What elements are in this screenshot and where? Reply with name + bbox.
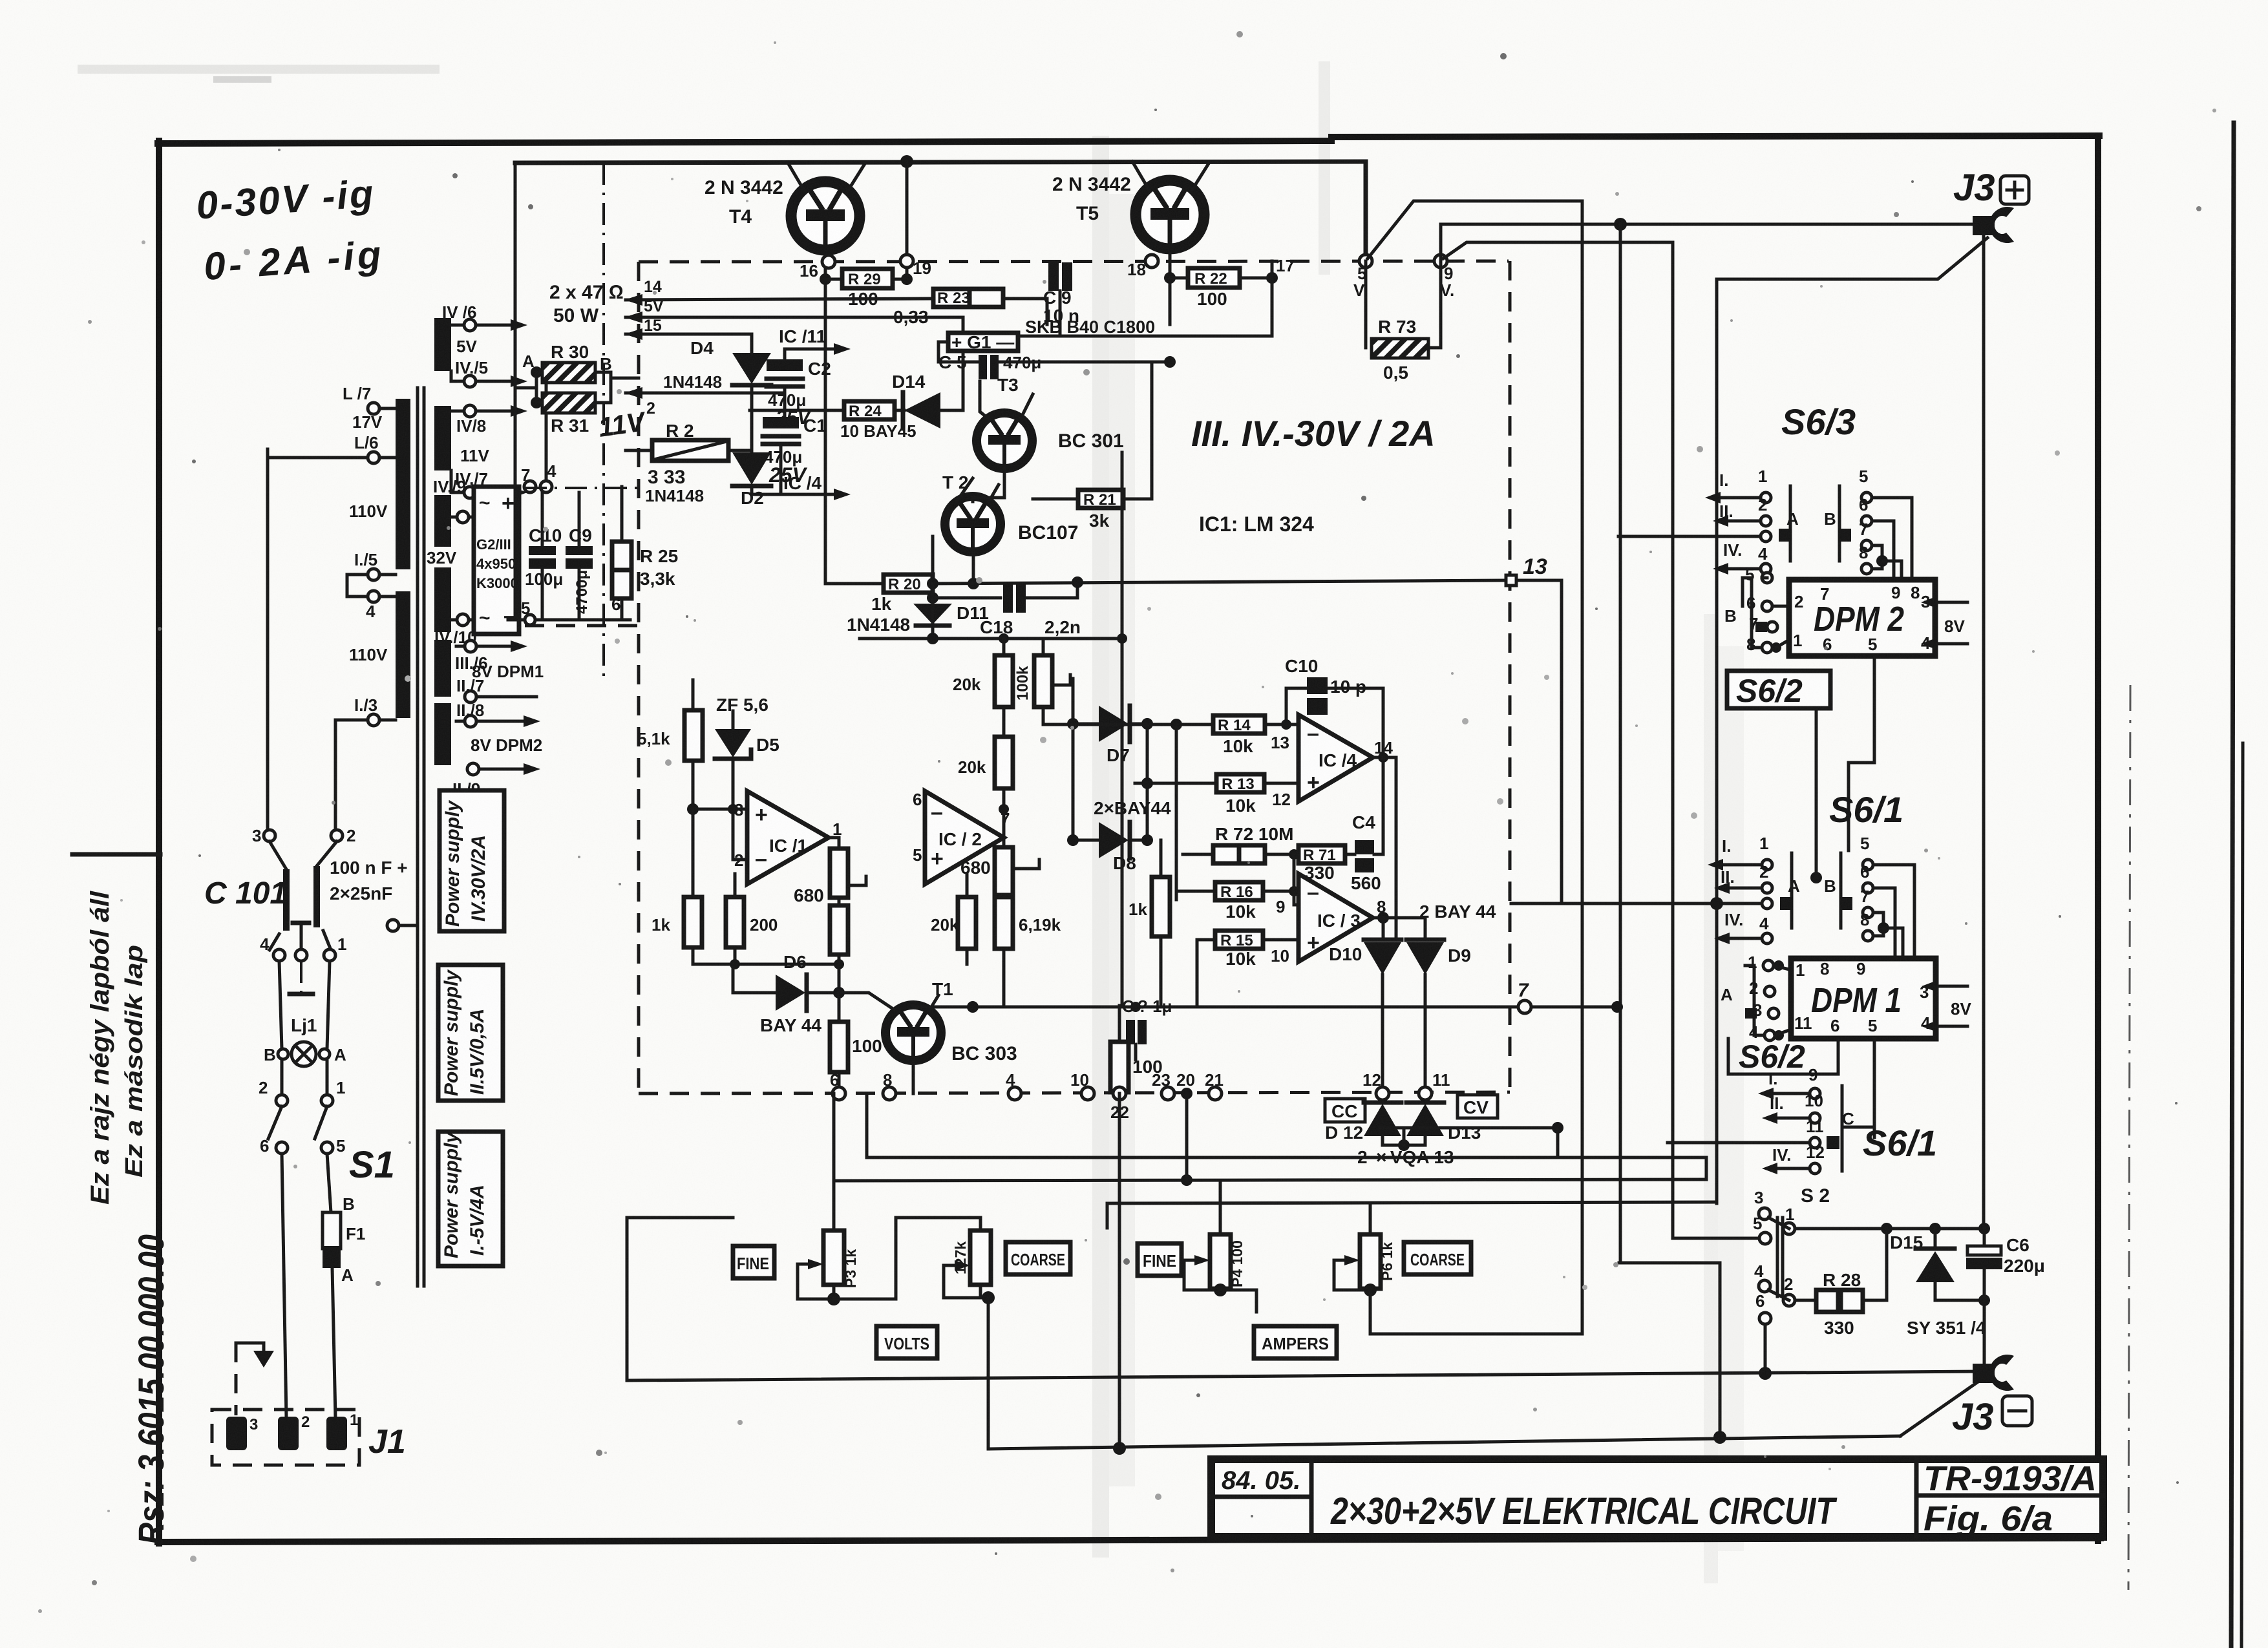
vertical from node9 wire down to S2 (1671, 242, 1675, 1238)
resistor R22 (1164, 272, 1176, 284)
diode D13 (1406, 1104, 1444, 1136)
resistor R21 (1078, 490, 1123, 508)
transistor T3 (977, 413, 1032, 469)
wire C9 bottom to R22 joint (1018, 335, 1272, 338)
P5 100k pot (1034, 655, 1052, 707)
resistor R12 (995, 897, 1013, 949)
wire IC/11 (785, 348, 834, 351)
wire rail to node19 (906, 162, 909, 279)
vertical from rail A down (1581, 201, 1584, 1333)
vertical sense line (1619, 224, 1622, 1263)
node 9 (1434, 255, 1447, 268)
wire S2-1 to C6 (1795, 1227, 1984, 1231)
diode D14 (904, 392, 940, 428)
diode D2 (732, 452, 771, 485)
FINE box (733, 1246, 774, 1278)
wire DPM2 pin5 down (1873, 656, 1876, 763)
rail A (627, 1371, 1982, 1380)
resistor R20 (884, 575, 933, 593)
resistor R71 330 (1298, 845, 1345, 863)
wire node9 diagonal (1443, 242, 1673, 259)
wire (282, 1154, 286, 1418)
resistor R14 (1213, 715, 1265, 734)
capacitor C10 (529, 546, 556, 555)
wire P3 riser (832, 1093, 836, 1231)
DPM2 box (1789, 580, 1935, 656)
wire 2 rail (626, 392, 785, 395)
page edge lines right (2231, 123, 2234, 1648)
long rails under module (867, 1156, 1705, 1159)
inner enclosure box (627, 1216, 733, 1220)
capacitor C101 (283, 869, 290, 931)
wires into IC/1 (693, 808, 747, 811)
node 2 (331, 830, 343, 841)
wire from lower contact 11 to left (1668, 1141, 1810, 1145)
capacitor C18 (933, 597, 1001, 600)
diode bottom rail (1381, 1136, 1384, 1145)
resistor R4 (684, 897, 702, 947)
secondary winding bar IV6/IV5 (434, 318, 451, 371)
capacitor C2 (767, 359, 803, 371)
wire (317, 841, 337, 866)
resistor R15 (1215, 931, 1263, 949)
transistor T4 (791, 182, 860, 250)
connector J1 dashed box (212, 1410, 359, 1465)
T4 emitter wire (824, 255, 827, 584)
J1 pin 1 (326, 1417, 347, 1450)
node 3 (264, 830, 275, 841)
resistor R13 (1216, 774, 1264, 792)
node 16 (822, 255, 835, 268)
wire I./3 to switch pole 2 (335, 719, 368, 722)
wire (266, 449, 270, 834)
resistor R3 (684, 710, 703, 761)
diode D8 (1099, 822, 1129, 858)
COARSE box 2 (1404, 1242, 1471, 1274)
resistor R29 (820, 273, 831, 285)
bridge top terminals 7 4 (524, 481, 536, 492)
left margin tick (72, 852, 160, 857)
handwritten note 0-30V-ig (195, 171, 386, 288)
bridge bottom rail (508, 618, 630, 622)
capacitor C6 (1983, 1229, 1986, 1250)
S6/2 label box (1727, 671, 1830, 708)
smoothing caps C10 C9 (541, 492, 544, 546)
resistor R10 (830, 905, 848, 955)
rail B (988, 1436, 1900, 1449)
terminal IV./10 (457, 614, 469, 626)
wire (279, 961, 282, 1049)
node 17 (1266, 272, 1278, 284)
VOLTS box (876, 1326, 937, 1358)
node 13 (1506, 575, 1516, 586)
node 5 (1359, 255, 1372, 268)
resistor R16 (1215, 882, 1263, 900)
wire C6 down to J3- (1983, 1300, 1986, 1371)
rail y=903 with R20 (node 13 rail) (825, 582, 884, 586)
pot P3 1k (823, 1231, 844, 1285)
node mid (295, 949, 307, 961)
wire from bridge + up to R30/R31 B node (545, 378, 548, 481)
primary winding bar (396, 591, 410, 718)
wire V- sense vertical (1121, 452, 1124, 1006)
resistor R18 (1110, 1042, 1129, 1092)
diode D6 BAY44 (732, 964, 735, 993)
resistor R8 (995, 655, 1013, 707)
op-amp IC/4 (1298, 715, 1373, 801)
transformer core (416, 388, 419, 1286)
COARSE box (1006, 1242, 1070, 1274)
outer frame border (158, 141, 1331, 143)
node dot on rail (900, 155, 913, 168)
pot P4 100 (1210, 1234, 1231, 1289)
wire bundle joiners bottom (1705, 1157, 1708, 1179)
module dashed top edge (639, 261, 1509, 262)
wire 13 to right (1516, 580, 1562, 702)
wire G1 bottom to T5 emitter (938, 342, 979, 362)
pot P6 (1360, 1234, 1381, 1289)
wire (327, 1154, 331, 1212)
wire (332, 1268, 335, 1418)
bottom dashed pin labels (832, 1087, 845, 1100)
inner box left vertical (514, 163, 517, 619)
op-amp IC/2 (925, 791, 1004, 884)
CC box (1325, 1099, 1365, 1122)
wire corner down to node5 (1364, 162, 1368, 260)
S6/2 big label (1728, 1039, 1838, 1074)
node 18 (1145, 255, 1158, 268)
resistor R17 (1152, 877, 1170, 936)
capacitor C9 (10n) (1048, 262, 1059, 291)
rectifier G1 (948, 333, 1018, 351)
extra bundle verticals (1560, 702, 1563, 903)
DPM1 box (1791, 958, 1936, 1039)
op-amp IC/3 (1298, 874, 1373, 962)
transistor T5 (1136, 180, 1204, 249)
fuse F1 (323, 1212, 341, 1249)
diagonal to J3- fork (1900, 1381, 1979, 1436)
J3+ feed rail (1441, 224, 1980, 261)
resistor R7 (995, 737, 1013, 788)
node 4 (273, 949, 285, 961)
rotated handwritten note left: Ez a rajz negy lapbol all (86, 891, 148, 1205)
wire from IC1 top rail to R14 (1073, 723, 1176, 726)
resistor R11 (830, 1022, 848, 1072)
diode D12 (1364, 1104, 1401, 1136)
J1 pin 3 (226, 1417, 247, 1450)
wire loop to P7 (834, 1218, 980, 1299)
rotated Rsz number (131, 1234, 171, 1545)
node 1 (324, 949, 335, 961)
wire lower-left of S2 (1619, 1263, 1720, 1437)
resistor R24 (844, 401, 895, 419)
pot P7 127k (970, 1231, 991, 1285)
FINE box 2 (1138, 1243, 1182, 1276)
diode D11 (927, 578, 938, 589)
capacitor C9 (566, 546, 593, 555)
primary winding bar (396, 399, 410, 569)
collector rail (515, 162, 1366, 163)
paper grain (0, 0, 1, 1)
module dashed right edge (1509, 261, 1512, 1092)
connector fork J3- (1973, 1364, 1995, 1383)
wire R23 right down to G1 (1003, 299, 1047, 324)
capacitor C1 (763, 417, 799, 428)
wire P7 node down to rail B (987, 1298, 990, 1449)
wire (334, 722, 337, 835)
module dashed bottom edge (639, 1092, 1510, 1093)
ground arrow top of J1 (236, 1342, 264, 1345)
module dashed left edge (637, 262, 641, 1093)
scan smudge streaks (1092, 136, 1109, 1558)
T4 collector/base wires (788, 163, 805, 193)
resistor R9 (958, 897, 976, 949)
wire (270, 841, 286, 869)
J1 pin 2 (278, 1417, 299, 1450)
wire from fork diagonal down to S6 box (1717, 238, 1987, 279)
wire 5V rail to G1 (626, 316, 963, 319)
CV box (1457, 1095, 1498, 1118)
secondary winding bar 32V (434, 495, 451, 547)
connector fork J3+ (1973, 216, 1995, 235)
node7 rail (913, 1006, 1617, 1009)
wire node5 diagonal to top rail A (1368, 201, 1582, 259)
wire (270, 934, 279, 950)
wire riser node22 (1118, 1093, 1121, 1448)
wire J3 vertical (1982, 235, 1986, 1229)
resistor R25 (612, 542, 631, 570)
bottom wire of IC1 stage (693, 963, 839, 966)
resistor R5 (726, 897, 744, 947)
capacitor C10 10p (1307, 677, 1328, 694)
dash-dot boundary (602, 163, 605, 680)
wire top of cluster (692, 680, 695, 710)
diode D9 (1406, 938, 1444, 942)
wire T3 emitter to base T2 (973, 498, 1004, 502)
rail under D11 (860, 637, 1122, 640)
Lj1 ground symbol (300, 961, 302, 992)
AMPERS box (1254, 1326, 1337, 1358)
chassis terminal (387, 920, 399, 931)
wire L/6 to switch column (268, 456, 368, 460)
I./5 jumper bracket (347, 575, 368, 597)
op-amp IC/1 (747, 791, 829, 884)
node 19 (900, 255, 913, 268)
resistor R23 (626, 299, 933, 300)
dashed sub box (525, 487, 639, 489)
lamp Lj1 (291, 1042, 316, 1066)
wire DPM1 pin5 down (1873, 1039, 1876, 1137)
secondary winding bar IV8/IV7 (434, 406, 451, 470)
long vertical to S6/1 (1715, 279, 1719, 1203)
